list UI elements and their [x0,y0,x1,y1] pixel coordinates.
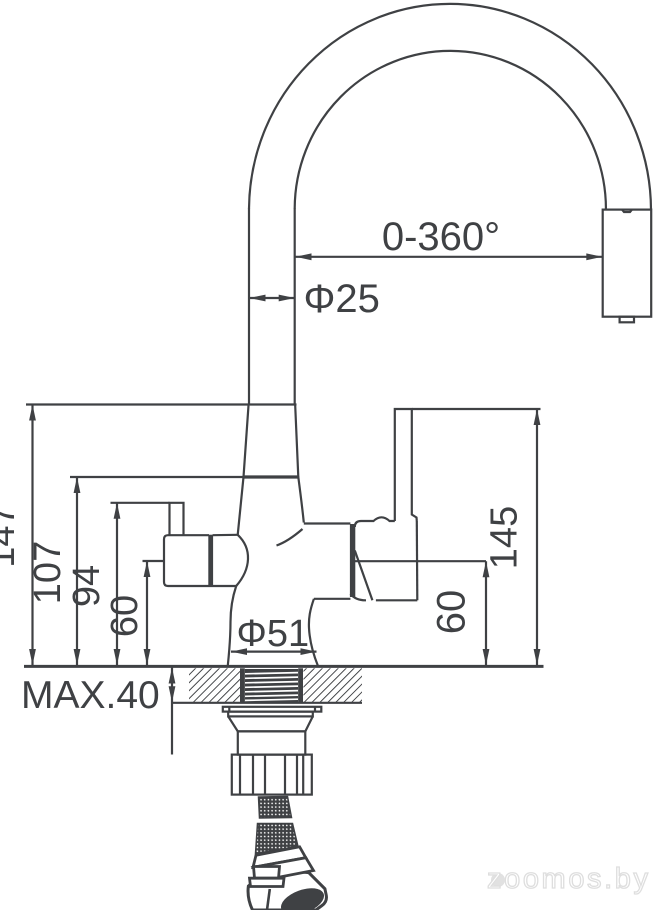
countertop hatching left [189,668,240,702]
svg-text:145: 145 [484,506,526,569]
dimension phi51 line [231,650,317,652]
right handle joint band [350,525,354,597]
dimension 0-360 line [296,256,603,258]
spout tube right edge [294,208,296,405]
left handle joint (thick divider) [209,535,213,586]
left handle boss bulge [236,535,248,586]
hex nut body [248,872,326,910]
dimension 0-360 right arrow [586,253,602,260]
extension line 145 top [412,408,540,410]
dimension MAX.40 line [171,666,173,754]
svg-text:Φ51: Φ51 [237,613,310,655]
extension line 94 [111,502,170,504]
braided hose segment 1 [259,797,292,819]
spout outer arc [249,4,651,210]
threaded shank left wall [240,668,245,703]
spout inner arc [295,51,606,210]
right handle diagonal [355,551,373,601]
left handle stem [170,503,184,535]
dimension line 60 left [146,561,148,665]
countertop hatching right [304,668,363,702]
right handle block top edge [355,517,395,527]
svg-text:zoomos.by: zoomos.by [487,863,651,895]
dimension line 147 [31,405,33,666]
threaded shank right wall [298,668,303,703]
svg-text:60: 60 [104,595,146,637]
svg-text:Φ25: Φ25 [304,277,380,321]
svg-text:94: 94 [66,565,108,607]
svg-text:147: 147 [0,504,23,567]
svg-text:MAX.40: MAX.40 [21,674,160,717]
svg-text:60: 60 [430,590,474,635]
hex nut facet line [267,889,270,910]
watermark smudge [491,873,505,887]
svg-text:107: 107 [27,541,69,604]
body waist thick segment [244,475,299,478]
extension line 107 (body waist) [70,476,244,478]
elbow collar band [253,847,306,868]
elbow cylinder base ring [250,878,285,886]
dimension phi25 line [250,297,295,299]
spray head nozzle [620,317,634,323]
knurled nut [232,755,312,795]
elbow lower band [253,858,314,881]
dimension 0-360 left arrow [296,253,312,260]
right lever [395,409,417,521]
dimension line 145 [536,409,538,665]
spray head top notch [622,210,632,212]
right handle bottom curve [350,594,366,600]
dimension line 107 [76,477,78,665]
extension line 60 right [355,560,486,562]
cone section [228,716,313,731]
elbow small cylinder [254,867,280,879]
body platform line [304,522,351,524]
flange lower band [228,712,313,717]
left handle block [164,535,236,586]
spout tube left edge [248,208,250,405]
right handle block right edge [416,521,419,600]
dimension phi25 right arrow [279,295,295,302]
body crease curve [277,529,303,546]
body under-platform line [314,598,351,600]
dimension phi25 left arrow [250,295,266,302]
extension line 60 left [143,560,165,562]
extension line 147 top [26,403,297,405]
body lower right edge [309,599,318,666]
spray head body [603,210,652,317]
right handle block bottom edge [376,599,417,601]
body upper right edge [295,406,304,523]
baseline (countertop top) [24,665,544,668]
flange washer [223,707,321,712]
body upper left edge [238,406,249,536]
hex nut dark face [277,883,327,910]
svg-text:0-360°: 0-360° [382,215,500,259]
dimension line 60 right [485,561,487,665]
dimension line 94 [116,503,118,665]
countertop bottom line [173,702,362,704]
cylinder section [238,731,305,754]
left handle boss top edge [213,534,238,537]
body lower left edge [228,586,236,666]
threaded shank threads [245,669,298,703]
braided hose segment 2 [256,824,299,854]
